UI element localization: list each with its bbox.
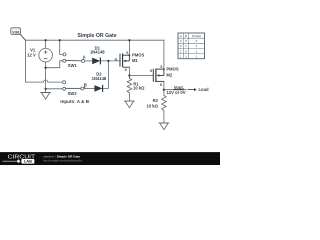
- label M1: [132, 52, 145, 63]
- wire M2 source up to rail: [163, 40, 165, 69]
- svg-text:M1: M1: [132, 58, 138, 63]
- node dot V1 top on rail: [45, 39, 47, 41]
- wire M1 source to rail: [128, 40, 130, 55]
- label D2: [92, 71, 107, 81]
- load arrow annotation: [188, 87, 209, 92]
- node A label: [83, 55, 86, 60]
- node dot M1 body-source: [129, 54, 131, 56]
- node dot SW2 bottom branch: [45, 88, 47, 90]
- wire Vout output: [164, 89, 186, 91]
- label M2: [166, 67, 179, 78]
- switch SW2: [63, 81, 84, 91]
- resistor R1: [127, 78, 132, 93]
- node dot Vout junction: [163, 89, 165, 91]
- wire node A: SW1 common to D1 anode: [85, 60, 93, 62]
- wire M1 drain junction to M2 gate: [129, 75, 153, 77]
- transistor M2 PMOS: [153, 69, 164, 82]
- svg-text:1N4148: 1N4148: [90, 50, 105, 55]
- junction dots: [45, 39, 165, 91]
- svg-text:S: S: [160, 65, 162, 69]
- resistor R2: [162, 96, 167, 111]
- Vdd net flag: [11, 28, 26, 40]
- wire left rail from Vdd corner down: [25, 40, 62, 82]
- node dot M2 body-source: [163, 68, 165, 70]
- switch SW1: [63, 53, 85, 63]
- svg-text:M2: M2: [166, 73, 172, 78]
- M2 pin labels: [150, 65, 163, 87]
- label R1: [133, 82, 145, 91]
- svg-text:Vdd: Vdd: [12, 30, 20, 34]
- svg-text:PMOS: PMOS: [132, 52, 145, 57]
- wire D2 cathode to node A junction: [103, 61, 109, 89]
- wire M2 drain down to R2: [163, 81, 165, 95]
- svg-text:10 kΩ: 10 kΩ: [146, 104, 158, 109]
- ground G2 under R1: [124, 101, 135, 108]
- node B label: [84, 83, 87, 88]
- truth table: [178, 33, 205, 59]
- svg-text:12V or 0V: 12V or 0V: [166, 90, 185, 95]
- node dot V1 minus SW1 branch: [45, 67, 47, 69]
- transistor M1 PMOS: [120, 53, 129, 67]
- ground G3 under R2: [159, 123, 170, 130]
- node dot SW1 branch on rail: [59, 39, 61, 41]
- svg-text:A: A: [180, 34, 182, 38]
- label V1 value: [27, 48, 36, 58]
- svg-text:12 V: 12 V: [27, 52, 36, 57]
- diode D2: [94, 85, 102, 92]
- wire SW1 bottom throw to V1 minus: [46, 61, 63, 68]
- svg-text:R2: R2: [153, 98, 159, 103]
- wire M1 drain down to R1: [128, 67, 130, 78]
- node Vout label: [166, 85, 185, 95]
- svg-text:http://circuitlab.com/c/pkbr8u: http://circuitlab.com/c/pkbr8uwum9m: [43, 159, 82, 162]
- watermark bar: [0, 152, 220, 165]
- CircuitLab logo: [3, 155, 37, 164]
- wire node B: SW2 common to D2 anode: [84, 87, 95, 89]
- svg-text:1N4148: 1N4148: [92, 76, 107, 81]
- wire top rail Vdd: [25, 39, 164, 41]
- label D1: [90, 46, 105, 55]
- svg-text:PMOS: PMOS: [166, 67, 179, 72]
- diode D1: [92, 57, 100, 64]
- svg-text:LAB: LAB: [24, 159, 32, 164]
- svg-text:Load: Load: [199, 87, 209, 92]
- wire V1 bottom to ground: [45, 62, 47, 93]
- wire SW2 bottom throw to V1 minus: [46, 88, 63, 90]
- node dot M1 drain R1 M2 gate: [128, 74, 130, 76]
- svg-text:Inputs: A & B: Inputs: A & B: [60, 99, 89, 104]
- M1 pin labels: [115, 51, 129, 72]
- svg-text:B: B: [185, 34, 187, 38]
- node dot A junction at D1 cathode: [107, 60, 109, 62]
- wire R1 bottom to ground: [128, 93, 130, 101]
- wire V1 top to rail: [45, 40, 47, 48]
- svg-text:SW2: SW2: [67, 91, 77, 96]
- ground G1 under V1: [40, 93, 51, 100]
- wire SW1 top throw to rail: [60, 40, 63, 54]
- wire D1 cathode to M1 gate: [100, 60, 120, 62]
- svg-text:S: S: [126, 51, 128, 55]
- label R2: [146, 98, 158, 108]
- svg-text:Simple OR Gate: Simple OR Gate: [77, 33, 116, 39]
- svg-text:watshrd / Simple OR Gate: watshrd / Simple OR Gate: [43, 154, 80, 158]
- wire R2 bottom to ground: [163, 111, 165, 123]
- svg-text:SW1: SW1: [68, 63, 78, 68]
- svg-text:10 kΩ: 10 kΩ: [133, 86, 145, 91]
- node dot M1 source on rail: [128, 39, 130, 41]
- svg-text:Output: Output: [192, 34, 201, 38]
- voltage source V1: [39, 48, 53, 62]
